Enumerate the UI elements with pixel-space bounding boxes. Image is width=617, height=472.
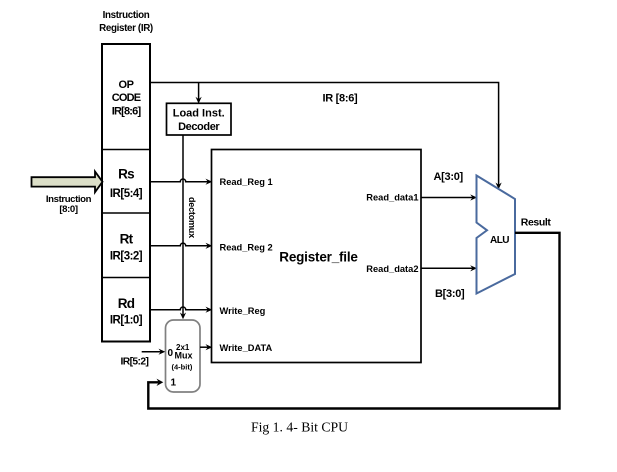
wire Rs to Read_Reg 1 (hop over vertical) (150, 179, 208, 182)
svg-text:Read_Reg 1: Read_Reg 1 (220, 177, 273, 187)
wire Rd to Write_Reg (hop over vertical) (150, 307, 208, 310)
svg-text:Load Inst.: Load Inst. (173, 108, 225, 120)
arrowhead ALU B input (470, 265, 477, 271)
wire Read_data1 to ALU A (421, 197, 473, 199)
wire branch down to decoder (198, 83, 200, 100)
svg-text:Rs: Rs (118, 167, 134, 182)
IR section divider 2 (102, 212, 150, 214)
label Load Inst. Decoder (173, 108, 225, 134)
svg-text:ALU: ALU (490, 235, 509, 246)
svg-text:Rd: Rd (118, 296, 135, 311)
svg-text:IR[8:6]: IR[8:6] (112, 106, 142, 118)
label Instruction [8:0] (46, 194, 92, 215)
IR section divider 1 (102, 149, 150, 151)
svg-text:Rt: Rt (120, 231, 134, 246)
arrowhead Write_DATA input (206, 344, 213, 350)
arrowhead Read_Reg 2 (206, 243, 213, 249)
label Rt IR[3:2] (110, 231, 143, 262)
wire mux output to Write_DATA (200, 346, 208, 348)
arrowhead ALU A input (470, 194, 477, 200)
svg-text:IR [8:6]: IR [8:6] (323, 93, 359, 105)
svg-text:Read_Reg 2: Read_Reg 2 (220, 243, 273, 253)
arrowhead into decoder (196, 97, 202, 104)
wire Rt to Read_Reg 2 (hop over vertical) (150, 243, 208, 246)
svg-text:Read_data1: Read_data1 (366, 193, 418, 203)
svg-text:(4-bit): (4-bit) (172, 363, 193, 372)
instruction register IR box (102, 44, 150, 342)
svg-text:dectomux: dectomux (187, 197, 197, 238)
arrowhead Read_Reg 1 (206, 179, 213, 185)
IR section divider 3 (102, 277, 150, 279)
svg-text:IR[1:0]: IR[1:0] (110, 314, 143, 326)
mux 2x1 box (166, 320, 201, 392)
load instruction decoder box (167, 103, 232, 135)
label OP CODE IR[8:6] (112, 79, 142, 118)
label Rd IR[1:0] (110, 296, 143, 326)
svg-text:IR[5:4]: IR[5:4] (110, 188, 143, 200)
wire Result feedback to mux input 1 (148, 233, 559, 409)
svg-text:Result: Result (521, 216, 552, 228)
svg-text:1: 1 (171, 378, 177, 389)
svg-text:Write_Reg: Write_Reg (220, 306, 266, 316)
wire OP CODE to ALU top (IR[8:6]) (150, 83, 499, 186)
svg-text:OP: OP (118, 79, 133, 91)
register file box (212, 150, 422, 363)
arrowhead into mux input 1 (157, 379, 164, 386)
svg-text:IR[3:2]: IR[3:2] (110, 250, 143, 262)
wire Read_data2 to ALU B (421, 267, 473, 269)
svg-text:[8:0]: [8:0] (59, 204, 77, 215)
svg-text:0: 0 (168, 348, 174, 359)
arrowhead mux 0 input (159, 349, 166, 355)
label Instruction Register (IR) title (99, 10, 153, 34)
svg-text:CODE: CODE (112, 92, 141, 104)
arrowhead into mux top (180, 313, 186, 320)
svg-text:Mux: Mux (175, 351, 193, 361)
wire IR[5:2] into mux 0 (142, 351, 161, 353)
svg-text:Register_file: Register_file (279, 250, 358, 265)
svg-text:Write_DATA: Write_DATA (220, 343, 273, 353)
svg-text:Decoder: Decoder (178, 121, 220, 133)
svg-text:Instruction: Instruction (103, 10, 150, 21)
instruction input block arrow (32, 172, 103, 193)
ALU shape (477, 176, 516, 294)
wire dectomux vertical from decoder to mux (182, 135, 184, 315)
svg-text:Fig 1. 4- Bit CPU: Fig 1. 4- Bit CPU (251, 420, 348, 435)
arrowhead into ALU top (496, 183, 502, 190)
label Rs IR[5:4] (110, 167, 143, 200)
svg-text:B[3:0]: B[3:0] (435, 288, 465, 300)
svg-text:IR[5:2]: IR[5:2] (121, 357, 149, 368)
svg-text:Read_data2: Read_data2 (366, 264, 418, 274)
svg-text:A[3:0]: A[3:0] (434, 171, 464, 183)
svg-text:Register (IR): Register (IR) (99, 23, 153, 34)
arrowhead Write_Reg (206, 307, 213, 313)
